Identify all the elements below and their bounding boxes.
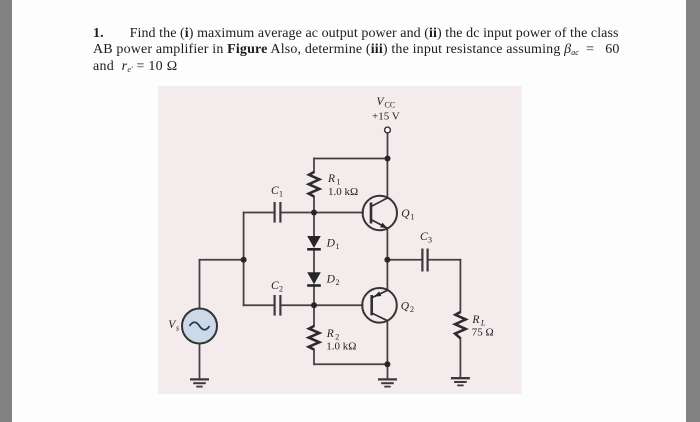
svg-text:s: s [176, 324, 179, 333]
svg-text:75 Ω: 75 Ω [472, 327, 494, 339]
svg-text:1: 1 [411, 213, 415, 222]
svg-text:2: 2 [336, 278, 340, 287]
svg-text:R: R [327, 173, 335, 185]
svg-text:C: C [271, 185, 279, 197]
svg-text:CC: CC [385, 101, 396, 110]
svg-text:D: D [326, 274, 336, 286]
svg-text:Q: Q [401, 208, 410, 220]
svg-text:3: 3 [428, 236, 432, 245]
svg-text:D: D [326, 238, 336, 250]
svg-text:C: C [271, 280, 279, 292]
svg-text:2: 2 [410, 305, 414, 314]
svg-text:C: C [420, 231, 428, 243]
svg-text:+15 V: +15 V [372, 111, 400, 123]
svg-text:1.0 kΩ: 1.0 kΩ [326, 341, 356, 353]
svg-text:R: R [326, 328, 334, 340]
svg-text:2: 2 [279, 284, 283, 293]
svg-text:1: 1 [336, 242, 340, 251]
svg-text:1.0 kΩ: 1.0 kΩ [328, 186, 358, 198]
svg-text:Q: Q [401, 301, 410, 313]
svg-text:1: 1 [279, 190, 283, 199]
svg-text:R: R [471, 314, 479, 326]
